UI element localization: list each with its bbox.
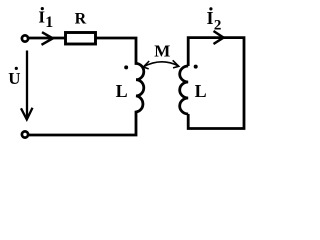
svg-text:I: I [207,8,214,28]
svg-text:L: L [116,81,128,101]
svg-text:1: 1 [45,14,53,31]
svg-text:R: R [75,11,87,28]
svg-text:2: 2 [214,17,222,33]
svg-text:L: L [195,81,207,101]
svg-text:M: M [154,42,170,61]
svg-text:U: U [8,69,20,88]
